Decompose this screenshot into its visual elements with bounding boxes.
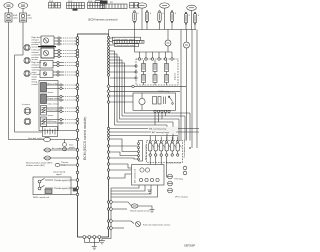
junction diamond D1	[109, 200, 112, 204]
meter coil M4	[160, 141, 163, 151]
connector icon CN1	[24, 44, 30, 50]
wire SV1 down left rail	[9, 22, 44, 140]
ECM U1 (ECCS control module) main box	[78, 34, 109, 237]
label: sensor names in group	[48, 83, 61, 124]
ECM pin for data link	[76, 193, 78, 195]
stop lamp switch S1	[44, 137, 51, 141]
ECM bottom pigtails	[84, 238, 99, 246]
wires B7 to ECM	[47, 107, 77, 113]
svg-text:Air conditioning compressor: Air conditioning compressor	[52, 147, 78, 150]
svg-text:SEF309P: SEF309P	[184, 244, 195, 248]
fusible link FL5	[184, 12, 187, 24]
wire air conditioner to ECM	[43, 147, 78, 152]
svg-text:A/T control unit: A/T control unit	[134, 169, 137, 183]
wire FL6 drop	[194, 24, 196, 29]
bus wire down-turn 1	[189, 113, 191, 141]
wire to injector box b	[110, 71, 136, 73]
solenoid valve SV2 (canister)	[20, 13, 27, 22]
wire ECM to V1 pin 2	[110, 145, 138, 147]
heated oxygen sensor B5	[41, 83, 47, 93]
meter coil M2	[149, 141, 152, 151]
injector feed drops from bus	[135, 30, 173, 59]
camshaft position sensor B1	[41, 36, 54, 46]
meter lower contacts	[149, 151, 179, 156]
top harness connector J2	[67, 3, 85, 11]
svg-text:Combined meter: Combined meter	[166, 162, 182, 165]
connector icon CN3	[24, 70, 30, 76]
svg-text:Closed throttle switch: Closed throttle switch	[116, 44, 137, 47]
wires B5 to ECM	[47, 84, 77, 90]
wire ECM to V1 pin 3	[110, 152, 138, 156]
svg-text:6: 6	[198, 15, 199, 17]
meter coil M7	[176, 141, 179, 151]
wire ECM to AT unit c	[110, 174, 132, 178]
camshaft position sensor B2	[41, 48, 54, 58]
wire cluster drops	[150, 156, 167, 177]
ground G1 below unit	[148, 190, 152, 193]
wires B1 to ECM with shield	[54, 37, 77, 45]
ground rail vertical	[102, 188, 111, 241]
thermo control amp TC1	[55, 161, 76, 167]
wire FL3 drop	[159, 23, 161, 30]
svg-text:Throttle signal (2): Throttle signal (2)	[54, 187, 70, 190]
svg-text:Fuel tank temperature sensor: Fuel tank temperature sensor	[143, 224, 170, 227]
svg-text:control: control	[32, 83, 39, 86]
wires B2 to ECM	[54, 49, 77, 57]
wire data link to ECM	[71, 194, 77, 196]
wire FL4 drop	[171, 23, 173, 30]
injector INJ2	[153, 64, 157, 72]
wire from R2 to solenoid valve SV2	[22, 8, 24, 13]
A/T check warning wire	[110, 130, 199, 134]
meter feed wire	[110, 135, 178, 137]
wires B8 to ECM	[47, 118, 77, 124]
fusible link FL1	[133, 11, 136, 23]
sensor block B7	[41, 106, 47, 116]
throttle sensor pin row	[113, 40, 145, 43]
wire ECM to AT unit a	[110, 164, 132, 168]
ECM right edge pins	[107, 36, 109, 229]
injector pins on top edge	[138, 58, 173, 60]
F/S solenoid connector box V1	[138, 141, 148, 162]
fuse ratings	[138, 13, 200, 17]
injector INJ1	[142, 64, 146, 72]
wire FL5 drop	[185, 24, 187, 29]
condenser C2	[184, 42, 190, 48]
fuel tank temperature sensor B10	[113, 221, 171, 227]
meter coil M6	[171, 141, 174, 151]
svg-text:Vehicle speed sensor: Vehicle speed sensor	[130, 210, 150, 213]
wire throttle signal 1	[45, 178, 77, 182]
sensor group outer box	[39, 81, 58, 131]
injector assembly dashed box	[136, 59, 178, 85]
MIL warning lamp wire	[110, 127, 199, 131]
battery supply bus wire	[109, 29, 197, 31]
junction diamond D4	[109, 226, 112, 230]
ground G2	[99, 241, 105, 244]
svg-text:F101: F101	[49, 1, 53, 3]
svg-text:sensor: sensor	[32, 58, 39, 61]
svg-text:In series: In series	[22, 103, 30, 106]
ECCS relay K1 box	[133, 93, 176, 110]
svg-text:Engine coolant: Engine coolant	[48, 97, 61, 100]
meter hatch marks	[152, 145, 181, 148]
svg-text:Combination meter: Combination meter	[183, 139, 186, 158]
svg-text:Injector: Injector	[174, 73, 177, 80]
svg-text:sensor: sensor	[32, 46, 39, 49]
svg-text:ECCS relay: ECCS relay	[158, 90, 170, 93]
ignition coil resistor R1 (top-left oval)	[4, 3, 13, 9]
injector INJ3	[165, 64, 169, 72]
label: right bank camshaft sensor text block	[22, 36, 42, 106]
injector INJ5	[153, 75, 157, 83]
wire throttle signal 2	[45, 186, 77, 190]
injector INJ4	[142, 75, 146, 83]
wire to injector box c	[110, 77, 136, 79]
top harness connector J3	[88, 1, 105, 9]
heated oxygen sensor B6	[41, 94, 47, 104]
svg-text:signal: signal	[56, 174, 62, 176]
connector icon CN5	[24, 118, 31, 125]
sensor block B8	[41, 117, 47, 127]
meter riser stubs	[150, 136, 178, 142]
throttle position sensor label box B9	[113, 37, 141, 41]
right rail wire 2	[186, 30, 188, 43]
svg-text:temp. sensor: temp. sensor	[48, 103, 59, 106]
closed throttle position switch label	[115, 44, 139, 47]
label: connector ids	[49, 1, 113, 4]
svg-text:F/S relay: F/S relay	[175, 178, 184, 181]
svg-text:Heated oxygen: Heated oxygen	[48, 109, 61, 112]
svg-text:6: 6	[163, 13, 164, 15]
svg-text:6: 6	[150, 13, 151, 15]
svg-text:SEF5 control unit: SEF5 control unit	[33, 196, 49, 199]
wires B3 to ECM	[53, 61, 77, 66]
wire injector drive 2	[110, 54, 173, 122]
svg-text:Inhibitor switch (A/T): Inhibitor switch (A/T)	[26, 164, 45, 167]
combination meter cluster box	[147, 141, 183, 163]
fuel pump motor M1	[139, 93, 145, 110]
solenoid SL3	[168, 188, 173, 193]
wire FL1 drop	[134, 23, 136, 30]
fusible link FL6	[193, 12, 196, 24]
injector column stubs	[144, 60, 167, 85]
wire to injector box d	[110, 85, 186, 87]
wire from R1 to solenoid valve SV1	[8, 8, 10, 13]
inhibitor switch box S2	[33, 177, 71, 195]
wire from D2	[113, 208, 127, 210]
wire ECM to AT unit b	[110, 169, 132, 171]
connector icon CN2	[24, 57, 30, 63]
injector box left pins	[135, 65, 137, 79]
solenoid valve pair SV3	[183, 166, 187, 170]
svg-text:Throttle signal (1): Throttle signal (1)	[54, 179, 70, 182]
wire edge pin to D1	[108, 201, 110, 203]
junction diamond on ECM edge DA	[107, 84, 110, 88]
right rail wire 4	[196, 30, 198, 149]
wire unit pin 3 to rail	[111, 185, 151, 194]
bus wire down-turn 3	[178, 119, 180, 141]
wire ECM to V1 staircase	[110, 139, 138, 152]
wire injector drive 1	[110, 51, 167, 125]
relay pins bottom	[154, 110, 170, 112]
solenoid SL2	[168, 181, 173, 186]
svg-text:Neutral position switch (M/T): Neutral position switch (M/T)	[26, 162, 53, 165]
connector icon CN4	[24, 108, 31, 115]
solenoid valve SV1 (EGR)	[5, 13, 12, 22]
wire ECM to relay a	[110, 95, 133, 97]
fuse F3 oval	[187, 5, 197, 10]
ECM bottom pins	[83, 236, 101, 239]
right rail wire 1	[180, 30, 182, 141]
ECM left edge pins	[76, 37, 79, 190]
top harness connector J1	[49, 3, 61, 9]
relay coil parts	[153, 96, 174, 104]
connector stub on ECM edge	[73, 188, 77, 192]
top harness connector J4	[100, 1, 127, 9]
svg-text:sensor: sensor	[48, 91, 54, 94]
wire battery to ECM	[58, 130, 77, 132]
svg-text:6: 6	[175, 13, 176, 15]
wire to injector box a	[110, 65, 136, 67]
junction diamond D2	[109, 207, 112, 211]
bus wire down-turn 4	[172, 122, 174, 141]
bus wire down-turn 5	[166, 125, 168, 141]
wire unit pin 2 to rail	[111, 185, 145, 191]
vehicle speed sensor O1	[113, 202, 150, 213]
svg-text:ECM (ECCS control module): ECM (ECCS control module)	[83, 117, 87, 160]
svg-text:EGR temp.: EGR temp.	[48, 120, 58, 123]
wire injector drive 5	[110, 63, 190, 113]
ground G3 under ECM	[92, 247, 97, 250]
wire O1 to ground	[138, 206, 152, 210]
fuse F2 oval	[160, 3, 170, 8]
node junction right	[189, 147, 191, 149]
wire to injector box e	[110, 90, 180, 92]
svg-text:sensor: sensor	[48, 114, 54, 117]
svg-text:A/T warning lamp: A/T warning lamp	[152, 131, 170, 134]
svg-text:M1: M1	[110, 2, 113, 4]
wire from D4	[113, 227, 124, 229]
sensor block B4	[40, 70, 53, 78]
wire injector drive 4	[110, 60, 185, 116]
wire injector drive 3	[110, 57, 179, 119]
meter coil M5	[165, 141, 168, 151]
svg-text:Seat belt switch: Seat belt switch	[28, 137, 43, 140]
junction diamond on ECM edge DB	[107, 89, 110, 93]
node pin on bus	[132, 85, 134, 87]
fusible link FL4	[170, 11, 173, 23]
injector INJ6	[165, 75, 169, 83]
fusible link FL2	[145, 11, 148, 23]
wire fuse feeds down	[141, 8, 143, 29]
wire FL2 drop	[146, 23, 148, 30]
wires B4 to ECM	[53, 71, 77, 76]
data link connector J6	[45, 189, 52, 194]
wires TPS to ECM	[110, 38, 115, 45]
wire unit pin 1 to rail	[111, 185, 139, 188]
wires B6 to ECM	[47, 95, 77, 101]
svg-text:6: 6	[138, 13, 139, 15]
relay K5 (horn relay)	[63, 140, 67, 151]
A/T control unit box U2	[132, 165, 165, 186]
relay pin drop wires	[155, 113, 169, 126]
svg-text:(ECM harness connector): (ECM harness connector)	[88, 18, 118, 22]
fuse F1 oval	[137, 3, 147, 8]
condenser C1	[165, 30, 171, 53]
ignition coil resistor R2 (top-left oval)	[18, 3, 27, 9]
svg-text:MIL warning lamp: MIL warning lamp	[149, 128, 167, 131]
sensor block B3	[40, 61, 53, 69]
wire ECM to V1 pin 4	[110, 158, 138, 159]
svg-text:Wide open switch: Wide open switch	[145, 144, 148, 160]
svg-text:F102: F102	[68, 1, 72, 3]
junction diamond D3	[109, 219, 112, 223]
wire stop lamp to ECM	[50, 139, 76, 141]
ground G4	[150, 210, 155, 213]
battery BT1	[43, 127, 58, 137]
fusible link FL3	[158, 11, 161, 23]
svg-text:6: 6	[189, 15, 190, 17]
wire park switch to ECM	[43, 156, 77, 160]
svg-text:F103: F103	[88, 1, 92, 3]
meter coil M3	[154, 141, 157, 151]
bus wire down-turn 2	[184, 116, 186, 141]
solenoid SL1	[168, 174, 173, 179]
top harness connector J5	[130, 3, 139, 9]
svg-text:amp.: amp.	[61, 165, 66, 167]
wire SV2 down inner rail	[15, 22, 42, 132]
right rail wire 3	[191, 30, 193, 149]
wire ECM to relay b	[110, 101, 133, 103]
thick separator bar	[38, 46, 56, 48]
svg-text:(PTC heater): (PTC heater)	[175, 196, 188, 199]
wire unit pin 4 to rail	[111, 185, 158, 197]
solenoid valve pair SV4	[183, 171, 187, 175]
bus corner to ECM	[108, 30, 110, 35]
